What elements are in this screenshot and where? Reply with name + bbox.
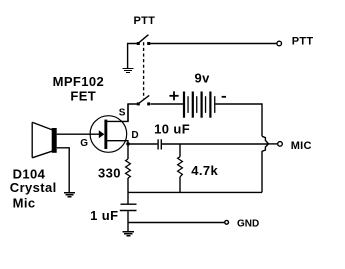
wire MIC stub [269,143,278,145]
battery minus sign [222,96,226,98]
wire drain row to cap [128,143,157,145]
battery plus sign [169,91,178,100]
wire switch S1b left to FET source [107,104,139,121]
wire right rail lower jog from MIC junction [262,144,269,193]
switch S1b (PTT pole 2) [137,95,150,105]
svg-text:1 uF: 1 uF [90,208,118,223]
wire battery to right rail [215,104,262,136]
resistor R2 4.7k [178,144,183,192]
svg-text:Mic: Mic [13,196,36,211]
svg-text:10 uF: 10 uF [154,122,190,137]
battery B1 9v [183,92,216,118]
ground top (PTT switch) [122,68,133,72]
svg-text:330: 330 [98,165,121,180]
svg-text:9v: 9v [195,71,211,86]
svg-text:MPF102: MPF102 [53,74,105,89]
wire right rail upper jog into MIC junction [262,136,269,144]
wire mic to gate [57,133,100,135]
junction drain node [126,142,130,146]
resistor R1 330 [126,144,131,192]
svg-text:4.7k: 4.7k [191,163,218,178]
wire bottom rail [128,191,262,193]
svg-text:G: G [80,138,88,149]
capacitor C1 10uF [158,139,161,149]
wire switch to PTT terminal [149,43,277,45]
ground mic [64,193,75,197]
terminal MIC [278,142,283,147]
transistor Q1 MPF102 [90,104,128,152]
wire switch S1b right to battery [151,103,183,105]
dashed gang link [143,42,145,98]
capacitor C2 1uF [120,192,137,231]
wire mic to ground [57,148,69,193]
switch S1a (PTT pole 1) [137,35,150,45]
wire top switch left leg [128,44,138,69]
terminal GND [225,220,229,224]
ground bottom (1uF) [123,232,135,236]
svg-text:D: D [131,130,138,141]
svg-text:PTT: PTT [134,15,156,27]
svg-text:FET: FET [70,88,96,103]
svg-text:MIC: MIC [291,140,312,152]
svg-text:Crystal: Crystal [10,180,57,195]
wire GND row [128,222,224,224]
mic MK1 D104 element [32,122,57,158]
svg-text:PTT: PTT [292,36,314,48]
svg-text:GND: GND [237,219,259,230]
svg-text:S: S [119,107,126,118]
terminal PTT [277,41,282,46]
wire cap to MIC junction [162,143,268,145]
